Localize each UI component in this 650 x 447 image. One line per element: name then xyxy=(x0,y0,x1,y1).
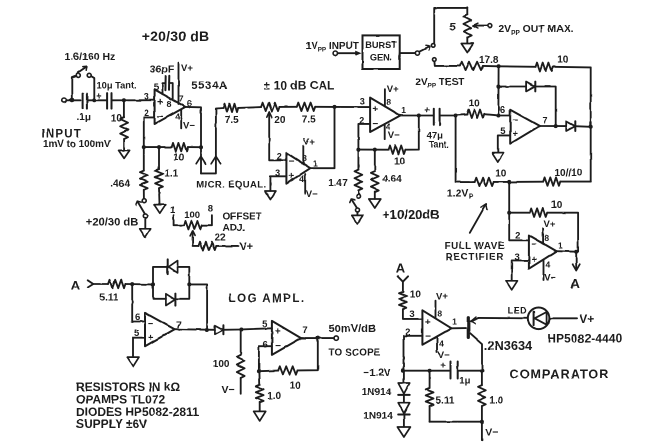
svg-text:COMPARATOR: COMPARATOR xyxy=(510,368,610,382)
resistor R14 10 to pin6 xyxy=(456,98,499,118)
diode D2 xyxy=(566,121,591,131)
node bridge left xyxy=(151,282,155,286)
svg-text:+: + xyxy=(425,317,431,328)
svg-text:10: 10 xyxy=(551,200,563,211)
svg-text:8: 8 xyxy=(544,233,549,243)
label 5534A xyxy=(191,80,227,92)
wire C1 to C2 xyxy=(87,99,107,101)
svg-text:8: 8 xyxy=(166,99,171,109)
label +20/30 dB bottom xyxy=(86,216,139,228)
wire U4 pin6 xyxy=(498,115,510,117)
node cal junction xyxy=(333,105,337,109)
svg-text:1.6/160 Hz: 1.6/160 Hz xyxy=(65,51,116,63)
resistor R21 5.11 xyxy=(100,280,126,304)
svg-text:GEN.: GEN. xyxy=(370,53,392,63)
svg-text:1: 1 xyxy=(452,316,457,326)
svg-text:FULL WAVE: FULL WAVE xyxy=(445,241,505,252)
svg-text:4: 4 xyxy=(546,260,551,270)
capacitor C36 36pF xyxy=(150,64,175,100)
svg-text:1mV to 100mV: 1mV to 100mV xyxy=(43,139,111,150)
svg-text:3: 3 xyxy=(515,252,520,263)
U3 V+ stub xyxy=(385,84,399,106)
U5 V- stub xyxy=(544,260,557,283)
ground under R10 xyxy=(369,199,381,208)
svg-text:6: 6 xyxy=(263,340,268,351)
svg-text:1: 1 xyxy=(313,158,318,168)
svg-text:.464: .464 xyxy=(110,179,130,190)
wire burst to S3 xyxy=(400,52,416,54)
label RECTIFIER xyxy=(445,252,504,263)
node -1.2V left junction xyxy=(401,369,405,373)
node U8 fb junction xyxy=(257,369,261,373)
ground under S4 xyxy=(352,215,363,224)
resistor R22 100 xyxy=(213,330,245,395)
svg-text:2VPP OUT MAX.: 2VPP OUT MAX. xyxy=(498,24,573,37)
U3 V- stub xyxy=(385,124,400,141)
svg-text:8: 8 xyxy=(437,308,442,318)
svg-text:V+: V+ xyxy=(181,63,193,74)
svg-text:2VPP TEST: 2VPP TEST xyxy=(415,77,464,90)
svg-text:10: 10 xyxy=(557,54,569,65)
svg-text:V−: V− xyxy=(388,130,400,141)
node D9 output xyxy=(239,328,243,332)
svg-text:+10/20dB: +10/20dB xyxy=(382,207,439,222)
wire bridge to output xyxy=(189,284,207,330)
label 2Vpp TEST xyxy=(415,77,464,90)
svg-text:10: 10 xyxy=(410,289,422,300)
wire J1 to node xyxy=(66,99,80,101)
wire U3 out to C3 xyxy=(419,115,433,117)
node feedback left junction xyxy=(142,145,146,149)
op-amp U1 5534A xyxy=(144,90,192,125)
svg-text:10: 10 xyxy=(173,152,185,163)
ground under diodes xyxy=(397,427,410,437)
resistor R2 10 feedback xyxy=(144,143,201,163)
U1 V- stub pin4 xyxy=(181,109,195,131)
svg-text:4: 4 xyxy=(175,112,180,122)
op-amp U7 xyxy=(134,312,181,346)
resistor R5 7.5 xyxy=(223,104,239,127)
svg-text:V−: V− xyxy=(183,121,195,132)
svg-text:V−: V− xyxy=(485,427,498,439)
label 1.6/160 Hz xyxy=(65,51,116,63)
diode D8 lower xyxy=(153,284,189,305)
wire R15 to node xyxy=(494,181,510,183)
capacitor C2 10u Tant xyxy=(96,80,136,108)
svg-text:1VPP INPUT: 1VPP INPUT xyxy=(306,41,359,54)
wire A to R21 xyxy=(94,283,108,285)
svg-text:8: 8 xyxy=(386,97,391,107)
node U7 pin6 tap xyxy=(130,282,134,286)
svg-text:ADJ.: ADJ. xyxy=(223,223,246,234)
svg-text:7: 7 xyxy=(179,93,184,103)
label LOG AMPL. xyxy=(229,293,306,305)
svg-text:V+: V+ xyxy=(387,84,399,95)
resistor R20 1.0 xyxy=(478,371,504,422)
wire R6 to R7 xyxy=(280,106,297,108)
node U7 output junction xyxy=(205,328,209,332)
svg-text:7: 7 xyxy=(542,116,547,126)
wire node to U4 pin6 vertical xyxy=(497,66,499,115)
wire U7 pin5 ground xyxy=(133,338,145,357)
node U5 output xyxy=(574,250,578,254)
node feedback mid junction xyxy=(157,145,161,149)
svg-text:−: − xyxy=(148,319,154,330)
capacitor C1 .1u xyxy=(77,94,91,123)
svg-text:5.11: 5.11 xyxy=(100,293,119,304)
wire U5 output xyxy=(557,250,577,253)
svg-text:MICR. EQUAL.: MICR. EQUAL. xyxy=(196,179,266,190)
U1 V+ stub pin7 xyxy=(179,63,194,104)
U6 V- stub xyxy=(437,337,450,361)
svg-text:+: + xyxy=(288,171,294,182)
wire -1.2V rail right xyxy=(458,370,482,372)
svg-text:−: − xyxy=(531,240,537,251)
wire U2 output up xyxy=(310,107,334,168)
svg-text:A: A xyxy=(396,261,406,276)
node S1 right junction xyxy=(92,98,96,102)
node top junction xyxy=(497,64,501,68)
svg-text:.1μ: .1μ xyxy=(77,112,91,123)
svg-text:V+: V+ xyxy=(579,312,594,326)
svg-text:2: 2 xyxy=(515,231,520,242)
node input junction xyxy=(70,98,74,102)
offset pot 100 xyxy=(170,204,213,246)
diode D9 xyxy=(215,325,242,334)
output jack scope xyxy=(334,336,338,340)
svg-text:5: 5 xyxy=(154,82,159,92)
svg-text:10: 10 xyxy=(495,169,507,180)
op-amp U4 xyxy=(500,105,548,144)
diode D1 xyxy=(498,82,555,127)
wire to V- bottom xyxy=(482,422,499,441)
label 1mV to 100mV xyxy=(43,139,111,150)
wire node to U3 pin3 xyxy=(335,106,371,108)
svg-text:TO SCOPE: TO SCOPE xyxy=(329,347,381,358)
arrow J2 to burst box xyxy=(338,51,362,56)
resistor R3 .464 xyxy=(110,147,148,199)
LED D6 xyxy=(508,305,550,329)
wire U4 pin5 ground xyxy=(498,135,510,152)
ground U2 pin3 xyxy=(265,191,276,200)
wire U7 pin6 xyxy=(132,284,145,321)
op-amp U8 xyxy=(262,319,307,355)
node A comparator input xyxy=(396,261,408,282)
svg-text:20: 20 xyxy=(274,115,286,126)
op-amp U2 xyxy=(275,152,318,184)
wire LED to V+ xyxy=(549,312,594,326)
resistor R10 4.64 xyxy=(371,150,402,199)
svg-text:V+: V+ xyxy=(303,136,315,147)
label ADJ. xyxy=(223,223,246,234)
wire R21 to bridge xyxy=(125,283,153,285)
resistor R13 10 top xyxy=(499,54,591,71)
ground under R11 xyxy=(461,44,473,53)
wire U5 pin3 ground xyxy=(512,260,529,280)
potentiometer R6 20 xyxy=(261,103,286,161)
svg-text:6: 6 xyxy=(500,105,505,116)
label 1Vpp INPUT xyxy=(306,41,359,54)
U6 V+ stub xyxy=(436,291,449,318)
node collector junction xyxy=(480,369,484,373)
switch S2 gain xyxy=(136,199,148,229)
ground U4 pin5 xyxy=(492,153,504,162)
node rail junction xyxy=(507,180,511,184)
svg-text:8: 8 xyxy=(208,204,213,215)
ground under R24 xyxy=(254,411,266,421)
resistor R4 1.1 xyxy=(155,147,179,204)
svg-text:1: 1 xyxy=(558,240,563,250)
svg-text:1.0: 1.0 xyxy=(267,391,281,402)
svg-text:5534A: 5534A xyxy=(191,80,227,92)
input jack J2 xyxy=(333,51,337,55)
svg-text:1N914: 1N914 xyxy=(363,411,393,422)
U2 V- stub xyxy=(305,174,318,200)
diode D4 1N914 xyxy=(362,371,410,399)
wire U7 output xyxy=(175,328,215,331)
resistor R23 10 feedback U8 xyxy=(259,338,318,392)
resistor R7 7.5 xyxy=(297,103,316,126)
svg-text:−: − xyxy=(275,341,281,352)
switch S1 bypass xyxy=(72,66,94,100)
op-amp U3 xyxy=(359,97,406,132)
svg-text:7.5: 7.5 xyxy=(225,115,239,126)
wire -1.2V rail left xyxy=(403,370,449,372)
svg-text:+: + xyxy=(157,97,163,109)
label INPUT xyxy=(42,129,83,141)
node U8 output junction xyxy=(316,336,320,340)
svg-text:V−: V− xyxy=(544,273,556,284)
svg-text:HP5082-4440: HP5082-4440 xyxy=(547,331,622,345)
label HP5082-4440 xyxy=(547,331,622,345)
wire D5 to ground xyxy=(403,415,405,427)
label +/-10 dB CAL xyxy=(264,79,335,93)
resistor R25 22 xyxy=(199,232,254,253)
capacitor C3 47u Tant xyxy=(424,106,455,150)
U5 V+ stub xyxy=(543,219,556,243)
note opamps xyxy=(76,392,165,406)
micr-equal jumper right arrow xyxy=(211,156,220,163)
svg-text:+20/30 dB: +20/30 dB xyxy=(86,216,139,228)
wire throw top to pot xyxy=(434,8,467,44)
wire U1 output down xyxy=(185,107,201,147)
node 5.11 tap xyxy=(428,369,432,373)
wire U2 pin3 ground xyxy=(270,176,286,191)
svg-text:−: − xyxy=(157,111,163,123)
svg-text:1.1: 1.1 xyxy=(164,169,178,180)
svg-text:5: 5 xyxy=(262,319,268,330)
svg-text:−: − xyxy=(372,119,378,130)
svg-text:5.11: 5.11 xyxy=(436,396,455,407)
svg-text:+: + xyxy=(148,333,154,344)
svg-text:+: + xyxy=(372,104,378,115)
switch S3 throw top xyxy=(431,44,435,48)
svg-text:A: A xyxy=(571,276,581,291)
svg-text:A: A xyxy=(71,278,81,293)
svg-text:BURST: BURST xyxy=(365,40,397,50)
U2 V+ stub xyxy=(303,136,315,163)
svg-text:+: + xyxy=(512,129,518,140)
svg-text:V+: V+ xyxy=(239,241,253,253)
resistor R9 1.47 xyxy=(328,150,362,195)
svg-text:+: + xyxy=(531,255,537,266)
wire throw bottom to R12 xyxy=(434,62,460,66)
wire U3 pin2 xyxy=(358,124,370,150)
svg-text:10: 10 xyxy=(290,381,302,392)
wire Q1 emitter to LED xyxy=(479,317,528,319)
svg-text:4.64: 4.64 xyxy=(382,174,402,185)
node U3 fb mid xyxy=(373,148,377,152)
ground under R4 xyxy=(154,204,166,213)
svg-text:100: 100 xyxy=(213,359,230,370)
label 50mV/dB xyxy=(329,323,376,335)
svg-text:1μ: 1μ xyxy=(459,375,470,386)
svg-text:10: 10 xyxy=(469,98,481,109)
label V- under 100 xyxy=(222,384,235,396)
wire U3 output xyxy=(400,115,419,117)
svg-text:7: 7 xyxy=(302,325,307,336)
svg-text:V−: V− xyxy=(306,189,318,200)
svg-text:+: + xyxy=(275,327,281,338)
label COMPARATOR xyxy=(510,368,610,382)
node C2 output junction xyxy=(122,98,126,102)
svg-text:−1.2V: −1.2V xyxy=(363,367,391,379)
resistor R12 17.8 xyxy=(460,55,499,70)
node diode branch junction xyxy=(496,85,500,89)
svg-text:3: 3 xyxy=(360,97,365,107)
node A log input xyxy=(71,278,94,293)
node U4 output junction xyxy=(554,124,558,128)
resistor R18 10 comp input xyxy=(399,282,422,319)
note resistors xyxy=(76,380,180,394)
label FULL WAVE xyxy=(445,241,505,252)
wire U6 output xyxy=(452,327,466,329)
switch S3 pole xyxy=(415,46,430,56)
svg-text:+20/30 dB: +20/30 dB xyxy=(142,28,210,44)
node C3 output xyxy=(454,114,458,118)
wire rail to U5 pin2 xyxy=(509,182,529,240)
node U3 output xyxy=(417,114,421,118)
label +20/30 dB top xyxy=(142,28,210,44)
op-amp U5 xyxy=(515,231,563,270)
wire U6 pin2 xyxy=(404,336,423,371)
node U1 feedback junction xyxy=(199,145,203,149)
svg-text:± 10 dB CAL: ± 10 dB CAL xyxy=(264,79,335,93)
svg-text:5: 5 xyxy=(450,21,456,33)
node U3 fb left xyxy=(356,148,360,152)
resistor R8 10 feedback U3 xyxy=(358,116,418,168)
svg-text:SUPPLY ±6V: SUPPLY ±6V xyxy=(76,417,147,431)
resistor R15 10 rail xyxy=(475,169,507,187)
diode D7 upper xyxy=(153,259,189,284)
svg-text:V+: V+ xyxy=(544,219,556,230)
micr-equal jumper left arrow xyxy=(196,147,205,173)
label TO SCOPE xyxy=(329,347,381,358)
resistor R19 5.11 xyxy=(426,371,455,422)
arrow output A down xyxy=(571,252,581,291)
wire bottom rail xyxy=(430,421,482,423)
node bottom rail junction xyxy=(480,420,484,424)
svg-text:3: 3 xyxy=(144,92,149,102)
ground U7 pin5 xyxy=(127,357,139,367)
op-amp U6 comparator xyxy=(405,308,457,348)
svg-text:1.47: 1.47 xyxy=(328,178,348,189)
node bridge right xyxy=(187,282,191,286)
svg-text:50mV/dB: 50mV/dB xyxy=(329,323,376,335)
svg-text:+: + xyxy=(440,360,446,371)
wire U1 pin2 xyxy=(144,117,155,147)
svg-text:1: 1 xyxy=(401,105,406,115)
svg-text:OFFSET: OFFSET xyxy=(223,212,262,223)
wire R7 to node xyxy=(315,106,334,108)
diode D5 1N914 xyxy=(363,395,409,422)
svg-text:LED: LED xyxy=(508,305,528,315)
wire C3 node down to rail xyxy=(456,116,475,183)
svg-text:4: 4 xyxy=(439,338,444,348)
label 1.2Vp xyxy=(447,188,474,202)
burst generator box xyxy=(363,35,400,69)
svg-text:−: − xyxy=(512,115,518,126)
wire D9 to U8 pin5 xyxy=(241,328,272,329)
ground under S2 xyxy=(140,229,151,238)
wire U8 output xyxy=(301,337,334,339)
svg-text:3: 3 xyxy=(409,309,414,320)
switch S3 throw bottom xyxy=(433,58,437,62)
svg-text:10: 10 xyxy=(111,113,123,124)
svg-text:1N914: 1N914 xyxy=(362,387,392,398)
svg-text:1.0: 1.0 xyxy=(489,396,503,407)
node U4 pin6 junction xyxy=(496,114,500,118)
svg-text:V−: V− xyxy=(222,384,235,396)
note supply xyxy=(76,417,147,431)
svg-text:4: 4 xyxy=(300,174,305,184)
svg-text:10μ Tant.: 10μ Tant. xyxy=(97,80,137,90)
U1 pin5 stub xyxy=(154,82,166,94)
svg-text:7.5: 7.5 xyxy=(302,115,316,126)
wire R12 to node xyxy=(483,65,499,67)
potentiometer R11 5 xyxy=(450,8,492,43)
label -1.2V xyxy=(363,367,391,379)
resistor R24 1.0 xyxy=(256,371,282,411)
switch S4 gain2 xyxy=(350,194,361,215)
resistor R1 10 shunt xyxy=(111,100,128,150)
svg-text:−: − xyxy=(425,332,431,343)
micr-equal jumper bracket xyxy=(201,108,223,173)
wire C2 to U1 pin3 xyxy=(112,99,155,101)
svg-text:10//10: 10//10 xyxy=(555,168,583,179)
resistor R16 10//10 xyxy=(509,168,591,186)
label OFFSET xyxy=(223,212,262,223)
wire right bus vertical xyxy=(590,67,592,181)
resistor R17 10 feedback U5 xyxy=(509,200,578,252)
wire R5 to R6 xyxy=(238,106,261,109)
label 2Vpp OUT MAX. xyxy=(498,24,573,37)
svg-text:−: − xyxy=(289,156,295,167)
svg-text:LOG AMPL.: LOG AMPL. xyxy=(229,293,306,305)
label MICR. EQUAL. xyxy=(196,179,266,190)
svg-text:36pF: 36pF xyxy=(150,64,175,76)
label +10/20dB xyxy=(382,207,439,222)
input jack J1 xyxy=(62,98,67,103)
ground under R1 xyxy=(119,150,130,158)
node U5 fb junction xyxy=(507,211,511,215)
svg-text:RECTIFIER: RECTIFIER xyxy=(445,252,504,263)
wire U4 output xyxy=(540,125,567,127)
ground U5 pin3 xyxy=(506,281,518,290)
node right bus diode junction xyxy=(589,125,593,129)
svg-text:Tant.: Tant. xyxy=(429,140,450,150)
svg-text:10: 10 xyxy=(394,157,406,168)
